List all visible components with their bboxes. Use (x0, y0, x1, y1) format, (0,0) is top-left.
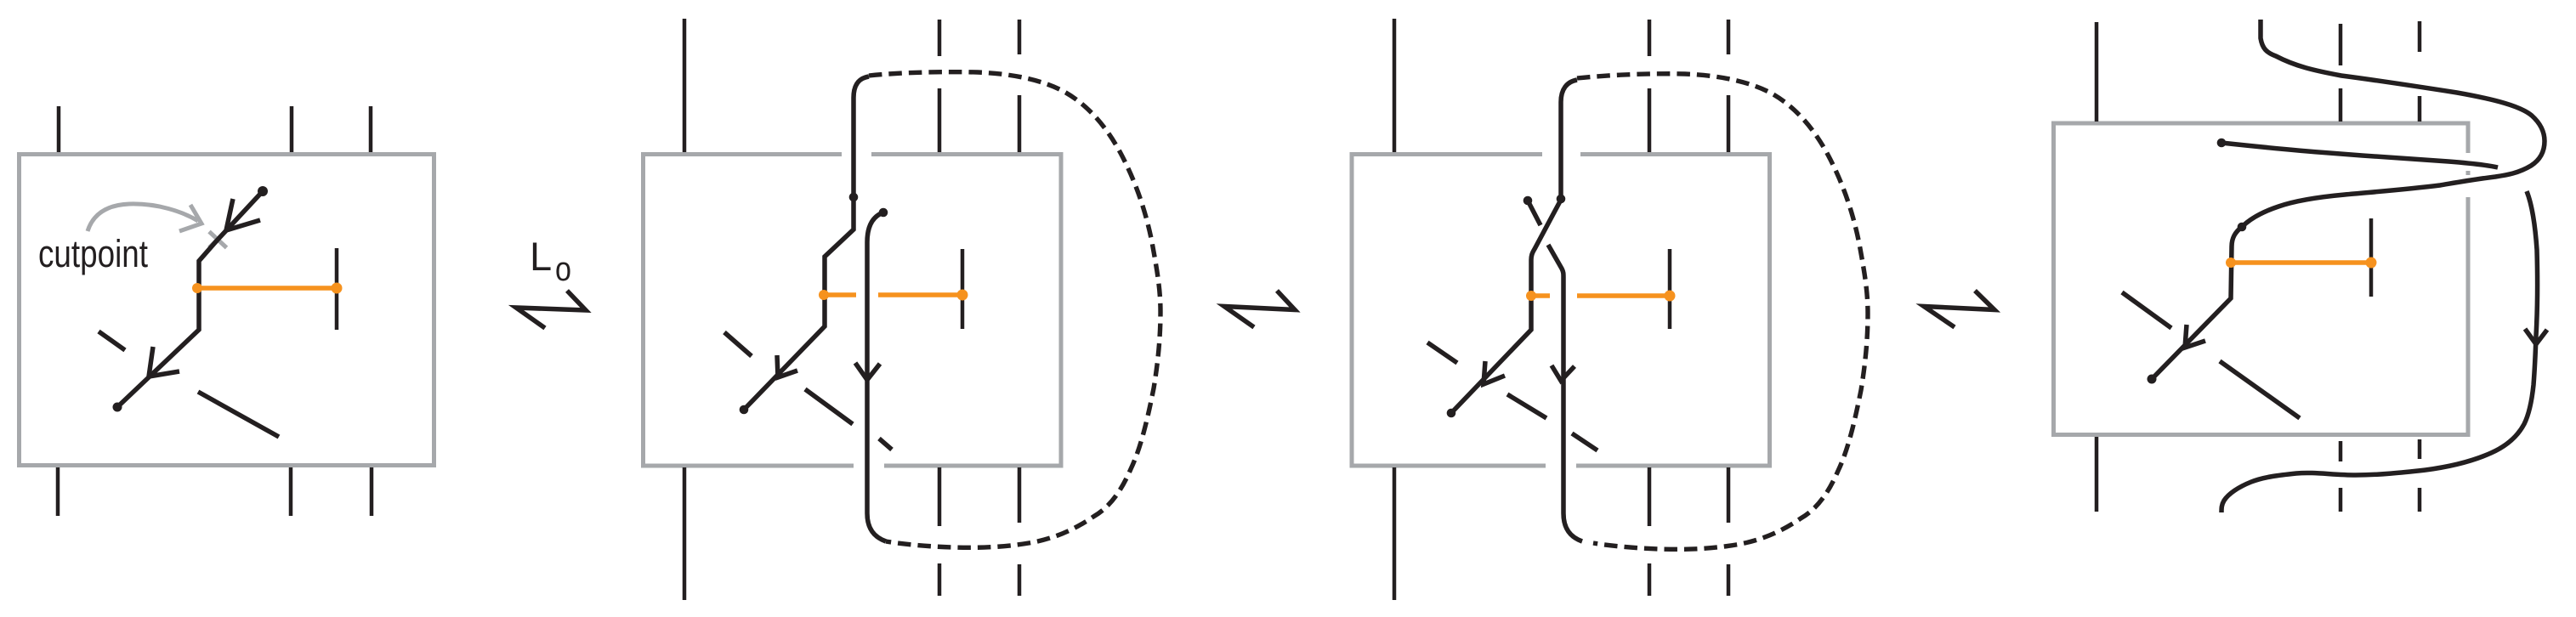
box left edge (2051, 122, 2056, 438)
strand A from closure through box (744, 76, 869, 410)
PANEL1 (20, 106, 434, 516)
boundary strand stub bottom-right (370, 467, 374, 516)
boundary strand left (2095, 22, 2099, 512)
box bottom edge with gap for strand (641, 464, 1064, 468)
orange band dot left (819, 290, 829, 300)
orange band dot left (1526, 291, 1536, 301)
isotopy squiggle symbol 3 (1924, 291, 1994, 327)
boundary strand stub bottom-middle (289, 467, 293, 516)
label L_o (530, 234, 571, 288)
orientation arrowhead lower diagonal (149, 347, 179, 376)
orange band dot right (957, 290, 968, 301)
vertical bar of band end (335, 248, 339, 330)
tangle box T (panel 1) (20, 155, 434, 466)
box left edge (1350, 152, 1354, 468)
orange band dot right (332, 283, 343, 294)
strand A endpoint dot bottom-left (740, 405, 749, 415)
short strand fragment upper-left (724, 332, 752, 356)
short strand fragment upper-left (99, 331, 125, 350)
PANEL4 (2051, 20, 2547, 512)
box left edge (641, 152, 645, 468)
boundary strand left (1393, 19, 1397, 600)
boundary strand stub top-right (369, 106, 373, 152)
orange band broken under strand B (824, 292, 962, 297)
arrowhead on descending strand (2525, 329, 2547, 344)
cut dot end of closure strand (2238, 223, 2247, 232)
boundary strand right broken by closure (1018, 20, 1022, 596)
box right edge (1059, 152, 1064, 468)
box right edge (1767, 152, 1772, 468)
strand fragment lower-right (2220, 361, 2300, 418)
vertical bar of band end (2369, 218, 2374, 297)
orange band dot right (2366, 258, 2377, 269)
gray pointer arrowhead (179, 205, 201, 231)
strand endpoint dot bottom-left (2148, 375, 2157, 384)
boundary strand stub top-middle (290, 106, 294, 152)
gray cutpoint marker x (209, 231, 227, 248)
arrowhead on strand A diagonal (777, 355, 797, 377)
strand endpoint dot bottom-left (113, 403, 122, 412)
strand descending right side to bottom (2221, 191, 2538, 512)
cut dot on strand B (879, 208, 888, 218)
closure loop dashed (1577, 74, 1868, 550)
strand fragment lower-right diagonal (198, 392, 279, 437)
closure loop L_o dashed (869, 72, 1160, 548)
strand A over-crossing from closure (1451, 80, 1577, 413)
svg-text:cutpoint: cutpoint (38, 232, 148, 275)
arrowhead on strand A diagonal (1484, 361, 1505, 384)
cut dot on strand A (849, 193, 859, 202)
tangle strand from cut dot to bottom-left (2152, 227, 2242, 379)
orange band (2231, 260, 2371, 265)
arrowhead on strand B (855, 363, 880, 380)
boundary strand middle broken by closure (1648, 20, 1652, 596)
strand B under-crossing to closure (1528, 201, 1582, 541)
arrowhead on tangle diagonal (2185, 325, 2205, 348)
strand fragment lower-right broken under strand B (805, 389, 892, 450)
short strand fragment upper-left (1427, 342, 1457, 363)
main strand with cut (117, 191, 263, 407)
svg-text:L: L (530, 234, 552, 279)
tangle box T (panel 4) top edge (2051, 122, 2471, 126)
orange band dot left (2226, 258, 2236, 268)
cut dot on strand B (1523, 196, 1533, 206)
boundary strand stub bottom-left (56, 467, 60, 516)
tangle box T (panel 3) top edge with gap for strand (1350, 152, 1773, 156)
gray pointer arrow curve (88, 204, 198, 231)
vertical bar of band end (961, 249, 965, 329)
PANEL3 (1350, 19, 1869, 600)
orientation arrowhead at cutpoint (226, 199, 260, 230)
orange band (197, 286, 337, 291)
orange band dot right (1665, 291, 1676, 302)
vertical bar of band end (1668, 249, 1672, 329)
boundary strand stub top-left (57, 106, 61, 152)
box bottom edge with gap for strand (1350, 464, 1773, 468)
arrowhead on strand B (1552, 365, 1575, 381)
boundary strand middle broken by strand (2339, 24, 2343, 512)
isotopy squiggle symbol 1 (516, 291, 586, 328)
boundary strand right broken by strand (2418, 21, 2422, 512)
strand fragment lower-right broken under strand B (1507, 394, 1597, 450)
strand fragment upper-left (2122, 292, 2171, 328)
PANEL2 (641, 19, 1160, 600)
boundary strand middle broken by closure (938, 20, 942, 596)
closure strand pulled from top over right (2242, 20, 2545, 227)
tangle box T (panel 2) top edge with gap for strand (641, 152, 1064, 156)
orange band broken under strand B (1531, 293, 1670, 298)
box bottom edge (2051, 433, 2471, 437)
cut dot on strand A (1557, 195, 1566, 204)
horizontal strand from cut dot under closure (2221, 143, 2498, 167)
isotopy squiggle symbol 2 (1224, 291, 1295, 327)
svg-text:o: o (555, 251, 571, 288)
strand endpoint dot top (258, 186, 268, 196)
boundary strand right broken by closure (1727, 20, 1731, 596)
strand A endpoint dot bottom-left (1447, 409, 1456, 418)
boundary strand left (683, 19, 687, 600)
orange band dot left (192, 283, 202, 293)
cut dot start of horizontal strand (2217, 139, 2227, 148)
strand B from cut dot to closure (867, 212, 886, 541)
box right edge broken where strands exit (2466, 122, 2471, 438)
